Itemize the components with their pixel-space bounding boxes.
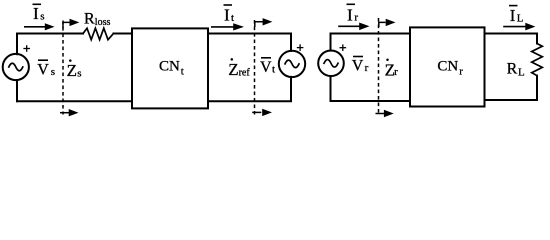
svg-text:R: R — [507, 61, 518, 78]
svg-text:ref: ref — [239, 68, 251, 79]
svg-text:t: t — [272, 63, 275, 75]
label Vt — [260, 58, 275, 76]
polarity plus of Vr — [340, 44, 347, 51]
label IL — [509, 6, 524, 25]
label Is — [33, 4, 45, 23]
label Vs — [37, 60, 55, 78]
svg-text:r: r — [459, 65, 463, 77]
wire RL bottom to CNr — [485, 76, 538, 100]
label Zref — [228, 58, 250, 79]
wire top-left of source Vs — [17, 33, 83, 35]
label Rloss — [84, 10, 110, 28]
label Zr — [385, 59, 399, 80]
polarity plus of Vt — [297, 44, 304, 51]
impedance marker Zr top arrow — [379, 19, 396, 27]
svg-text:r: r — [365, 62, 369, 74]
svg-text:V: V — [352, 58, 364, 75]
svg-text:loss: loss — [95, 17, 111, 28]
svg-text:L: L — [517, 12, 524, 24]
impedance marker Zr bottom arrow — [376, 110, 394, 117]
label CNr — [437, 59, 463, 78]
svg-text:I: I — [33, 4, 39, 23]
impedance marker Zref bottom arrow — [252, 109, 272, 116]
wire CNt to Vt top — [208, 34, 291, 51]
svg-text:V: V — [260, 59, 272, 76]
wire Vs vertical top — [16, 34, 18, 55]
wire Vr vertical bottom — [330, 76, 332, 101]
ac source Vs — [3, 54, 29, 80]
impedance marker Zr dashed line — [378, 18, 380, 115]
impedance marker Zref top arrow — [255, 18, 273, 27]
label Zs — [67, 59, 82, 80]
resistor Rloss zigzag — [83, 28, 114, 40]
current arrow IL — [503, 23, 535, 31]
svg-text:CN: CN — [437, 59, 458, 75]
svg-text:R: R — [84, 10, 95, 27]
svg-text:t: t — [181, 65, 184, 77]
svg-text:V: V — [37, 61, 49, 78]
current arrow Ir — [338, 23, 369, 31]
label CNt — [159, 59, 184, 78]
svg-text:r: r — [354, 11, 358, 23]
svg-text:I: I — [510, 6, 516, 25]
impedance marker Zs dashed line — [62, 21, 64, 115]
impedance marker Zs bottom arrow — [60, 109, 79, 116]
label RL — [507, 61, 525, 79]
current arrow Is — [24, 23, 55, 30]
svg-text:I: I — [224, 5, 230, 24]
svg-text:r: r — [394, 66, 398, 78]
current arrow It — [211, 23, 244, 30]
svg-text:Z: Z — [67, 61, 77, 80]
svg-text:Z: Z — [228, 60, 238, 79]
ac source Vt — [279, 51, 305, 77]
svg-text:s: s — [40, 11, 44, 23]
label Ir — [347, 4, 359, 24]
block CNr — [410, 27, 485, 106]
block CNt — [132, 28, 208, 108]
wire Rloss to CNt — [114, 33, 133, 35]
wire bottom-left — [17, 100, 132, 102]
resistor RL zigzag — [532, 44, 543, 76]
wire CNr to RL top — [485, 34, 538, 44]
label It — [224, 5, 235, 24]
svg-text:CN: CN — [159, 59, 180, 75]
svg-text:s: s — [51, 66, 55, 78]
impedance marker Zref dashed line — [254, 20, 256, 115]
wire Vt bottom — [208, 77, 291, 101]
wire Vs vertical bottom — [16, 80, 18, 101]
svg-text:I: I — [347, 5, 353, 24]
label Vr — [352, 57, 369, 75]
wire top right circuit to CNr — [331, 33, 411, 35]
wire bottom right circuit — [331, 100, 411, 102]
wire Vr vertical top — [330, 34, 332, 51]
svg-text:s: s — [77, 68, 81, 80]
polarity plus of Vs — [23, 45, 30, 52]
svg-text:t: t — [231, 12, 234, 24]
svg-text:L: L — [518, 67, 525, 79]
ac source Vr — [318, 51, 344, 77]
impedance marker Zs top arrow — [63, 19, 79, 28]
